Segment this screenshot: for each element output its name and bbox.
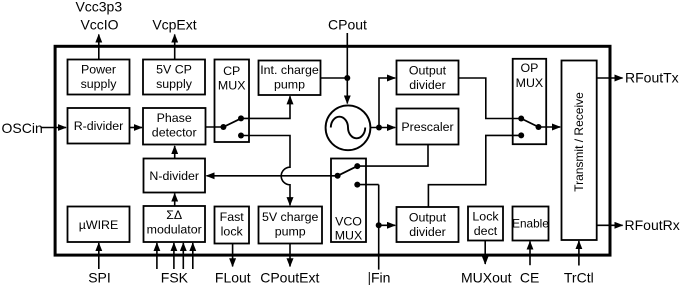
wire FSK input 4 [192, 243, 194, 269]
svg-text:N-divider: N-divider [149, 169, 199, 183]
wire SPI input [98, 243, 100, 269]
svg-text:Output: Output [409, 64, 447, 78]
block Power supply [68, 60, 130, 95]
svg-text:MUX: MUX [516, 76, 544, 90]
svg-text:pump: pump [274, 78, 305, 92]
svg-text:supply: supply [156, 77, 193, 91]
wire OP MUX pole to Transmit/Receive [539, 126, 561, 128]
svg-text:detector: detector [152, 126, 197, 140]
svg-text:Prescaler: Prescaler [401, 120, 453, 134]
wire Phase detector to CP MUX pole [206, 126, 224, 128]
svg-text:MUX: MUX [218, 79, 246, 93]
block Int. charge pump [259, 61, 321, 96]
svg-text:RFoutTx: RFoutTx [625, 70, 679, 86]
wire Prescaler to VCO MUX upper contact [357, 145, 428, 167]
block Sigma-Delta modulator [144, 206, 206, 242]
block 5V CP supply [143, 60, 205, 95]
wire VCO MUX pole to N-divider [207, 175, 338, 177]
wire Int. charge pump to CPout node [321, 77, 348, 79]
wire CP MUX lower contact to 5V charge pump (hops over N-divider wire) [241, 136, 290, 206]
wire MUXout output [484, 241, 486, 264]
block Transmit / Receive [562, 61, 597, 241]
svg-text:FSK: FSK [161, 270, 189, 286]
block Output divider (bottom) [397, 207, 459, 242]
svg-text:FLout: FLout [215, 270, 251, 286]
svg-text:pump: pump [275, 225, 306, 239]
svg-text:supply: supply [81, 77, 118, 91]
svg-text:Power: Power [81, 63, 116, 77]
wire CPoutExt output [289, 244, 291, 266]
block Phase detector [143, 108, 206, 145]
wire Vcc supply input [98, 35, 100, 60]
svg-text:Lock: Lock [472, 210, 499, 224]
block Fast lock [215, 207, 250, 244]
svg-text:dect: dect [474, 224, 498, 238]
wire VCO output to Prescaler [370, 127, 395, 129]
switch OP MUX [518, 116, 541, 139]
svg-text:VcpExt: VcpExt [152, 17, 196, 33]
node Fin junction [376, 222, 382, 228]
node VCO output junction [376, 125, 382, 131]
svg-text:R-divider: R-divider [74, 119, 124, 133]
svg-text:Fast: Fast [220, 210, 245, 224]
wire CE input [529, 242, 531, 266]
wire Fin input [378, 185, 380, 270]
switch CP MUX [220, 115, 244, 138]
svg-text:MUXout: MUXout [461, 270, 512, 286]
wire FSK input 1 [156, 243, 158, 269]
svg-text:5V CP: 5V CP [156, 63, 192, 77]
svg-text:Vcc3p3: Vcc3p3 [75, 0, 122, 15]
wire FSK input 2 [173, 243, 175, 269]
svg-text:divider: divider [409, 78, 446, 92]
VCO oscillator symbol [326, 105, 371, 150]
svg-text:SPI: SPI [88, 270, 111, 286]
wire RFoutRx output [597, 224, 623, 226]
wire Fin node to Output divider (bottom) [379, 224, 396, 226]
wire FLout output [232, 244, 234, 266]
tick mark at Fin [368, 272, 370, 285]
wire CP MUX upper contact to Int. charge pump [241, 96, 290, 118]
node CPout junction [344, 75, 350, 81]
svg-text:modulator: modulator [147, 223, 202, 237]
block N-divider [144, 159, 206, 193]
block Output divider (top) [397, 61, 459, 95]
block 5V charge pump [259, 207, 323, 244]
svg-text:CPoutExt: CPoutExt [260, 270, 319, 286]
svg-text:Enable: Enable [512, 217, 549, 231]
svg-text:CP: CP [223, 64, 240, 78]
svg-text:VccIO: VccIO [80, 17, 118, 33]
svg-text:TrCtl: TrCtl [564, 270, 594, 286]
svg-text:OP: OP [520, 61, 538, 75]
block CP MUX [215, 60, 250, 143]
svg-text:lock: lock [221, 225, 244, 239]
svg-text:RFoutRx: RFoutRx [625, 217, 680, 233]
block Prescaler [397, 109, 459, 145]
block Lock dect [468, 207, 503, 241]
wire Output divider (top) to OP MUX upper contact [459, 78, 522, 119]
svg-text:CE: CE [520, 270, 539, 286]
svg-text:µWIRE: µWIRE [79, 218, 119, 232]
switch VCO MUX [335, 163, 361, 188]
wire Output divider (bottom) to OP MUX lower contact [428, 135, 521, 206]
wire CPout pin to VCO [346, 33, 348, 104]
wire OSCin input [41, 127, 67, 129]
svg-text:MUX: MUX [335, 229, 363, 243]
block Enable [512, 207, 549, 241]
svg-text:Int. charge: Int. charge [260, 63, 319, 77]
wire RFoutTx output [597, 77, 623, 79]
svg-text:divider: divider [409, 225, 446, 239]
wire VcpExt supply input [174, 35, 176, 60]
svg-text:VCO: VCO [335, 215, 362, 229]
wire FSK input 3 [182, 243, 184, 269]
wire N-divider to Phase detector [174, 146, 176, 159]
svg-text:ΣΔ: ΣΔ [166, 208, 182, 222]
wire VCO MUX lower contact to Fin node [357, 184, 378, 186]
svg-text:Phase: Phase [157, 111, 192, 125]
block VCO MUX [331, 159, 366, 243]
svg-text:CPout: CPout [328, 17, 367, 33]
wire Sigma-Delta modulator to N-divider [174, 194, 176, 207]
svg-text:Transmit / Receive: Transmit / Receive [572, 92, 586, 192]
wire VCO output to Output divider (top) [379, 78, 395, 128]
svg-text:Fin: Fin [371, 270, 390, 286]
wire R-divider to Phase detector [130, 127, 143, 129]
svg-text:Output: Output [409, 211, 447, 225]
wire TrCtl input [578, 241, 580, 266]
block OP MUX [513, 59, 547, 144]
svg-text:OSCin: OSCin [2, 120, 43, 136]
svg-text:5V charge: 5V charge [262, 210, 319, 224]
block uWIRE [68, 207, 130, 243]
block R-divider [68, 108, 130, 144]
chip outline [55, 46, 610, 255]
